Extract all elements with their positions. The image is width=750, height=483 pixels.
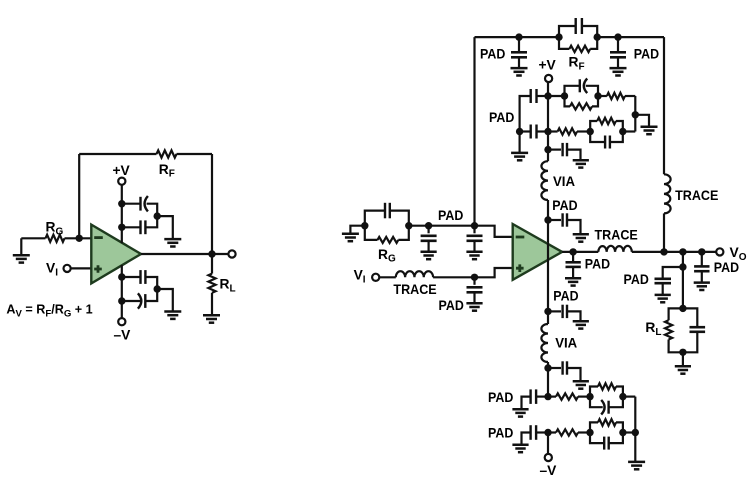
capacitor top bypass 1 (curved, left circuit)	[141, 196, 148, 211]
wire right loop upper segment	[663, 37, 665, 174]
label PAD (V_I node)	[439, 298, 464, 313]
ground (+V PAD caps)	[511, 153, 528, 160]
svg-text:PAD: PAD	[634, 47, 659, 62]
label VIA (bottom)	[555, 336, 577, 351]
label V_I (right circuit)	[354, 268, 366, 286]
wire combo4 to joiner	[623, 431, 635, 433]
svg-text:TRACE: TRACE	[595, 228, 638, 243]
svg-text:–V: –V	[114, 328, 132, 343]
svg-text:TRACE: TRACE	[393, 282, 436, 297]
ground (R_L, left circuit)	[203, 315, 220, 322]
node: combo1 right	[594, 92, 601, 99]
wire op-amp output (left circuit)	[141, 253, 228, 255]
wire row4 to -V terminal	[547, 433, 549, 455]
capacitor PAD +V row1	[531, 89, 537, 103]
node: supply cap branch	[544, 146, 551, 153]
node: -V rail cap1 junction	[118, 273, 125, 280]
capacitor PAD +V row2	[531, 125, 537, 139]
inductor TRACE (output)	[598, 246, 632, 252]
wire row1 to left cap	[537, 95, 549, 97]
capacitor supply stray (above VIA)	[548, 143, 581, 160]
svg-text:PAD: PAD	[438, 208, 463, 223]
svg-text:PAD: PAD	[480, 47, 505, 62]
svg-text:PAD: PAD	[585, 257, 610, 272]
wire VIA to pad node	[547, 200, 549, 243]
ground (-V network)	[628, 462, 645, 469]
node: op-amp -V pin pad	[544, 308, 551, 315]
wire left line to ground	[518, 132, 520, 153]
wire row2 down to cap branch	[547, 132, 549, 162]
wire +V down to row1	[547, 82, 549, 132]
resistor R_L (left circuit)	[208, 274, 215, 293]
wire output to R_L	[211, 254, 213, 274]
svg-text:PAD: PAD	[624, 272, 649, 287]
wire bottom bypass cap1 to join	[145, 277, 157, 289]
capacitor PAD output	[566, 252, 581, 278]
wire to top bypass cap 1	[122, 203, 141, 205]
inductor TRACE (input)	[396, 271, 433, 277]
svg-text:+V: +V	[113, 163, 131, 178]
terminal V_I (left circuit)	[64, 265, 71, 272]
svg-text:+V: +V	[539, 58, 557, 73]
resistor R_F (right circuit)	[559, 37, 597, 52]
node: R_F left	[555, 33, 562, 40]
node: combo3 left	[586, 393, 593, 400]
capacitor top bypass 2 (left circuit)	[141, 220, 146, 234]
wire VIA to cap branch	[547, 362, 549, 397]
wire combo3 to joiner	[623, 396, 635, 398]
svg-text:VIA: VIA	[555, 336, 577, 351]
capacitor PAD V_O right	[694, 252, 709, 283]
node: +V rail cap1 junction	[118, 200, 125, 207]
label PAD (op-amp +V pin)	[552, 198, 577, 213]
label -V (right circuit)	[540, 463, 558, 478]
wire joiner to ground (-V)	[634, 433, 636, 462]
capacitor combo4	[590, 433, 623, 450]
node: combo4 right	[619, 429, 626, 436]
label R_G (right circuit)	[378, 247, 396, 265]
wire input node to inverting input	[475, 226, 513, 237]
inductor TRACE (vertical, right loop)	[664, 174, 671, 213]
wire feedback top left segment	[79, 153, 156, 155]
ground (PAD op-amp -V pin)	[573, 321, 589, 328]
ground (R_L, right circuit)	[675, 366, 691, 373]
label V_O	[730, 245, 747, 263]
terminal V_I (right circuit)	[372, 274, 379, 281]
wire ground to R_G	[21, 237, 45, 239]
capacitor parallel with R_L	[683, 308, 705, 352]
wire feedback left vertical (right circuit)	[473, 37, 475, 226]
svg-text:PAD: PAD	[439, 298, 464, 313]
ground (-V stray cap)	[573, 381, 589, 388]
svg-text:PAD: PAD	[489, 110, 514, 125]
wire bottom bypass cap2 to join	[145, 289, 157, 301]
ground (PAD op-amp +V pin)	[573, 234, 589, 241]
wire PAD1 to PAD2	[429, 225, 475, 227]
capacitor combo2	[590, 132, 623, 149]
label TRACE (input)	[393, 282, 436, 297]
ground (PAD top-right)	[610, 68, 627, 75]
wire right loop lower segment	[663, 213, 665, 252]
wire top-right corner	[618, 36, 664, 38]
wire left cap row2 to left line	[520, 130, 531, 132]
resistor combo3	[590, 383, 623, 396]
capacitor combo1 (curved)	[565, 79, 599, 97]
svg-text:PAD: PAD	[553, 288, 578, 303]
label -V (left circuit)	[114, 328, 132, 343]
node: top bypass join	[154, 212, 161, 219]
wire feedback left vertical	[78, 154, 80, 238]
wire supply rail through op-amp	[547, 243, 549, 311]
node: combo3 right	[619, 393, 626, 400]
node: R_L combo bottom	[679, 349, 686, 356]
node: combo2 right	[619, 128, 626, 135]
inductor VIA (top)	[541, 161, 548, 200]
node: -V stray cap branch	[544, 364, 551, 371]
wire R_G to PAD1	[409, 225, 429, 227]
node: R_G left	[361, 222, 368, 229]
node: op-amp +V pin pad	[544, 216, 551, 223]
wire joiner to ground (+V)	[635, 115, 649, 127]
node: output junction (left circuit)	[208, 250, 215, 257]
capacitor bottom bypass 1 (left circuit)	[141, 270, 146, 284]
wire -V supply rail lower (left circuit)	[121, 265, 123, 318]
label PAD (-V row3)	[488, 390, 513, 405]
wire +V supply rail upper (left circuit)	[121, 185, 123, 243]
capacitor PAD input 2	[467, 226, 483, 252]
capacitor PAD V_O left	[655, 279, 672, 295]
label R_F (left circuit)	[159, 162, 175, 180]
label PAD (+V supply)	[489, 110, 514, 125]
node: output net junction	[679, 248, 686, 255]
ground (PAD -V row3)	[512, 409, 528, 416]
wire feedback top right segment	[177, 153, 213, 155]
wire output down to branch	[682, 252, 684, 309]
wire to bottom bypass cap 2	[122, 300, 141, 302]
op-amp (left circuit)	[91, 225, 141, 284]
label PAD (top-right)	[634, 47, 659, 62]
terminal V_O	[716, 248, 723, 255]
capacitor PAD V_I	[467, 277, 483, 303]
label TRACE (vertical)	[675, 188, 718, 203]
terminal output (left circuit)	[228, 250, 235, 257]
ground (PAD V_O right)	[694, 283, 710, 290]
node: input PAD1	[425, 222, 432, 229]
label PAD (op-amp -V pin)	[553, 288, 578, 303]
terminal -V (right circuit)	[545, 454, 552, 461]
node: output/loop junction	[660, 248, 667, 255]
wire trace to pad node	[433, 276, 474, 278]
wire combo2 to joiner	[623, 130, 636, 132]
inductor VIA (bottom)	[541, 324, 548, 362]
resistor R_F (left circuit)	[157, 150, 177, 157]
wire R_F to top-right PAD	[597, 36, 618, 38]
wire R_L to ground	[211, 293, 213, 316]
wire top bypass cap1 to join	[147, 204, 158, 216]
label PAD (V_O left)	[624, 272, 649, 287]
svg-text:PAD: PAD	[552, 198, 577, 213]
wire trace to loop node	[632, 251, 717, 253]
label +V (right circuit)	[539, 58, 557, 73]
resistor R_G (right circuit)	[365, 226, 409, 243]
node: R_L combo top	[679, 305, 686, 312]
wire V_I node to noninverting input	[475, 268, 513, 277]
op-amp (right circuit)	[513, 224, 562, 280]
resistor combo1	[565, 96, 599, 110]
resistor row4 series	[548, 429, 590, 435]
svg-text:PAD: PAD	[488, 390, 513, 405]
wire bottom bypass join to ground	[157, 289, 173, 312]
wire to top bypass cap 2	[122, 226, 141, 228]
node: R_F right	[594, 33, 601, 40]
wire joiner vertical (+V)	[634, 96, 636, 132]
node: row2 supply junction	[544, 128, 551, 135]
ground (bottom bypass, left circuit)	[164, 312, 181, 319]
capacitor parallel with R_G (right)	[365, 203, 409, 226]
capacitor parallel with R_F	[559, 18, 597, 37]
wire -V pin to VIA	[547, 311, 549, 324]
node: bottom bypass join	[154, 285, 161, 292]
wire top bypass cap2 to join	[145, 216, 157, 227]
svg-text:–V: –V	[540, 463, 558, 478]
ground (+V network)	[641, 127, 658, 134]
resistor row2 series	[548, 128, 590, 134]
capacitor PAD -V row3	[522, 389, 549, 409]
node: V_I PAD junction	[471, 274, 478, 281]
node: combo2 left	[587, 128, 594, 135]
label PAD (output)	[585, 257, 610, 272]
label R_L (left circuit)	[220, 277, 236, 295]
ground (PAD input 1)	[421, 252, 437, 259]
ground (top bypass, left circuit)	[164, 239, 181, 246]
node: combo4 left	[586, 429, 593, 436]
wire left cap row1 to left line	[520, 96, 531, 132]
node: -V rail cap2 junction	[118, 297, 125, 304]
resistor combo2	[590, 118, 623, 132]
node: left PAD branch junction	[679, 263, 686, 270]
terminal -V (left circuit)	[118, 318, 125, 325]
label +V (left circuit)	[113, 163, 131, 178]
ground (PAD V_I)	[466, 303, 482, 310]
wire feedback right vertical	[211, 154, 213, 254]
node: supply row1 junction	[544, 92, 551, 99]
wire V_I to trace	[379, 276, 396, 278]
node: R_G right	[405, 222, 412, 229]
wire joiner vertical (-V)	[634, 397, 636, 433]
ground (PAD V_O left)	[655, 295, 671, 302]
node: combo1 left	[561, 92, 568, 99]
label V_I (left circuit)	[46, 261, 58, 279]
svg-text:TRACE: TRACE	[675, 188, 718, 203]
resistor R_G (left circuit)	[46, 235, 65, 242]
label PAD (-V row4)	[488, 425, 513, 440]
resistor combo4	[590, 419, 623, 432]
svg-text:VIA: VIA	[553, 174, 575, 189]
ground (PAD -V row4)	[512, 445, 528, 452]
svg-text:PAD: PAD	[488, 425, 513, 440]
node: supply row4 junction	[544, 429, 551, 436]
wire to bottom bypass cap 1	[122, 276, 141, 278]
capacitor PAD -V row4	[522, 425, 549, 445]
wire feedback top-left corner	[475, 36, 520, 38]
label gain formula A_V = R_F/R_G + 1	[6, 303, 92, 320]
label PAD (input node)	[438, 208, 463, 223]
wire row1 to combo	[548, 95, 565, 97]
wire branch to left PAD cap	[663, 267, 683, 279]
node: V_O PAD junction	[698, 248, 705, 255]
label TRACE (output)	[595, 228, 638, 243]
wire top bypass join to ground	[157, 216, 173, 239]
capacitor supply stray (below VIA)	[548, 361, 581, 381]
node: +V rail cap2 junction	[118, 224, 125, 231]
capacitor bottom bypass 2 (curved, left circuit)	[138, 293, 145, 308]
svg-text:PAD: PAD	[714, 260, 739, 275]
wire R_G to inverting input	[65, 237, 92, 239]
label PAD (top-left)	[480, 47, 505, 62]
ground (PAD top-left)	[511, 68, 528, 75]
resistor row3 series	[548, 393, 590, 399]
label VIA (top)	[553, 174, 575, 189]
wire op-amp output (right)	[562, 251, 598, 253]
resistor R_L (right circuit)	[665, 308, 683, 352]
capacitor combo3 (curved)	[590, 397, 623, 415]
label PAD (V_O right)	[714, 260, 739, 275]
node: output PAD junction	[569, 248, 576, 255]
node: top-left PAD junction	[515, 33, 522, 40]
ground (supply stray cap)	[573, 160, 589, 167]
capacitor PAD op-amp -V pin	[548, 305, 581, 322]
capacitor PAD top-right	[610, 37, 626, 68]
label R_G (left circuit)	[46, 220, 64, 238]
node: inverting input junction	[76, 235, 83, 242]
capacitor PAD op-amp +V pin	[548, 213, 581, 234]
terminal +V (left circuit)	[118, 178, 125, 185]
node: joiner (+V)	[632, 111, 639, 118]
wire R_L combo to ground	[682, 352, 684, 366]
node: supply row3 junction	[544, 393, 551, 400]
capacitor PAD top-left	[511, 37, 527, 68]
node: joiner (-V)	[632, 429, 639, 436]
ground (PAD output)	[565, 278, 581, 285]
node: input PAD2 / feedback junction	[471, 222, 478, 229]
wire row2 to left cap	[537, 130, 549, 132]
ground (left of R_G, left circuit)	[13, 238, 30, 262]
terminal +V (right circuit)	[545, 75, 552, 82]
capacitor PAD input 1	[421, 226, 437, 252]
node: top-right PAD junction	[614, 33, 621, 40]
ground (PAD input 2)	[466, 252, 482, 259]
resistor row1 series	[598, 93, 635, 99]
node: left line row2 junction	[516, 128, 523, 135]
ground (R_G, right circuit)	[342, 226, 365, 242]
label R_L (right circuit)	[645, 320, 661, 338]
wire V_I to noninverting input	[70, 267, 91, 269]
label R_F (right circuit)	[569, 55, 585, 73]
wire top to R_F combo	[519, 36, 559, 38]
